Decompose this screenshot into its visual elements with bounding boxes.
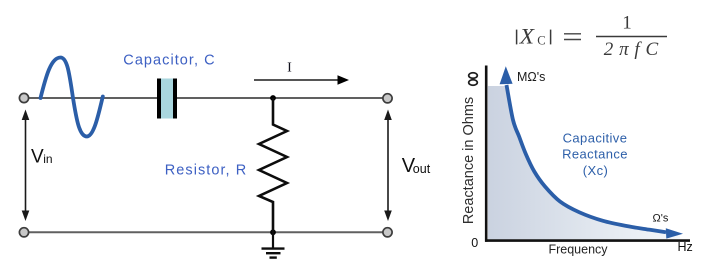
svg-text:Hz: Hz: [678, 240, 693, 254]
current arrow I: [254, 75, 349, 84]
formula magnitude Xc equals 1 over 2 pi f C: [517, 13, 667, 61]
terminal output top: [383, 94, 392, 103]
wire top input to capacitor: [24, 97, 157, 99]
svg-text:0: 0: [471, 236, 478, 250]
svg-text:I: I: [287, 60, 292, 75]
label Capacitive Reactance Xc: [562, 130, 628, 177]
graph y-axis: [485, 66, 488, 242]
wire bottom: [24, 231, 387, 233]
svg-text:2 π f C: 2 π f C: [604, 39, 659, 60]
svg-text:(Xc): (Xc): [583, 163, 608, 178]
svg-text:X: X: [519, 24, 535, 48]
node junction bottom: [270, 229, 276, 235]
svg-text:Capacitor, C: Capacitor, C: [123, 53, 215, 69]
graph x-axis: [485, 239, 690, 242]
capacitor C left plate: [157, 79, 161, 119]
curve arrowhead right: [666, 228, 683, 238]
svg-text:1: 1: [622, 13, 632, 34]
svg-text:Resistor, R: Resistor, R: [165, 163, 247, 179]
Vout measurement arrow: [384, 110, 392, 222]
svg-text:V: V: [31, 146, 44, 167]
resistor R zigzag: [259, 98, 287, 232]
Vin measurement arrow: [22, 110, 30, 222]
svg-text:in: in: [43, 152, 52, 166]
wire top capacitor to output: [177, 97, 387, 99]
svg-text:MΩ's: MΩ's: [517, 70, 545, 84]
ground: [262, 232, 285, 258]
node junction top: [270, 95, 276, 101]
svg-text:Ω's: Ω's: [653, 212, 669, 224]
svg-text:out: out: [413, 162, 431, 176]
terminal output bottom: [383, 228, 392, 237]
capacitor C dielectric: [161, 79, 173, 119]
label infinity: [469, 73, 478, 86]
svg-text:Reactance: Reactance: [562, 147, 628, 162]
terminal input top: [19, 93, 28, 102]
reactance curve: [507, 85, 667, 232]
label Vout: [402, 155, 431, 177]
curve arrowhead up: [500, 66, 513, 84]
svg-text:Reactance in Ohms: Reactance in Ohms: [461, 97, 477, 224]
svg-text:Frequency: Frequency: [548, 243, 608, 257]
label Vin: [31, 146, 53, 167]
graph shaded area under curve: [488, 86, 680, 239]
terminal input bottom: [19, 228, 28, 237]
svg-text:C: C: [537, 33, 545, 47]
sine wave source: [41, 58, 103, 137]
svg-text:Capacitive: Capacitive: [563, 130, 628, 145]
capacitor C right plate: [173, 79, 177, 119]
